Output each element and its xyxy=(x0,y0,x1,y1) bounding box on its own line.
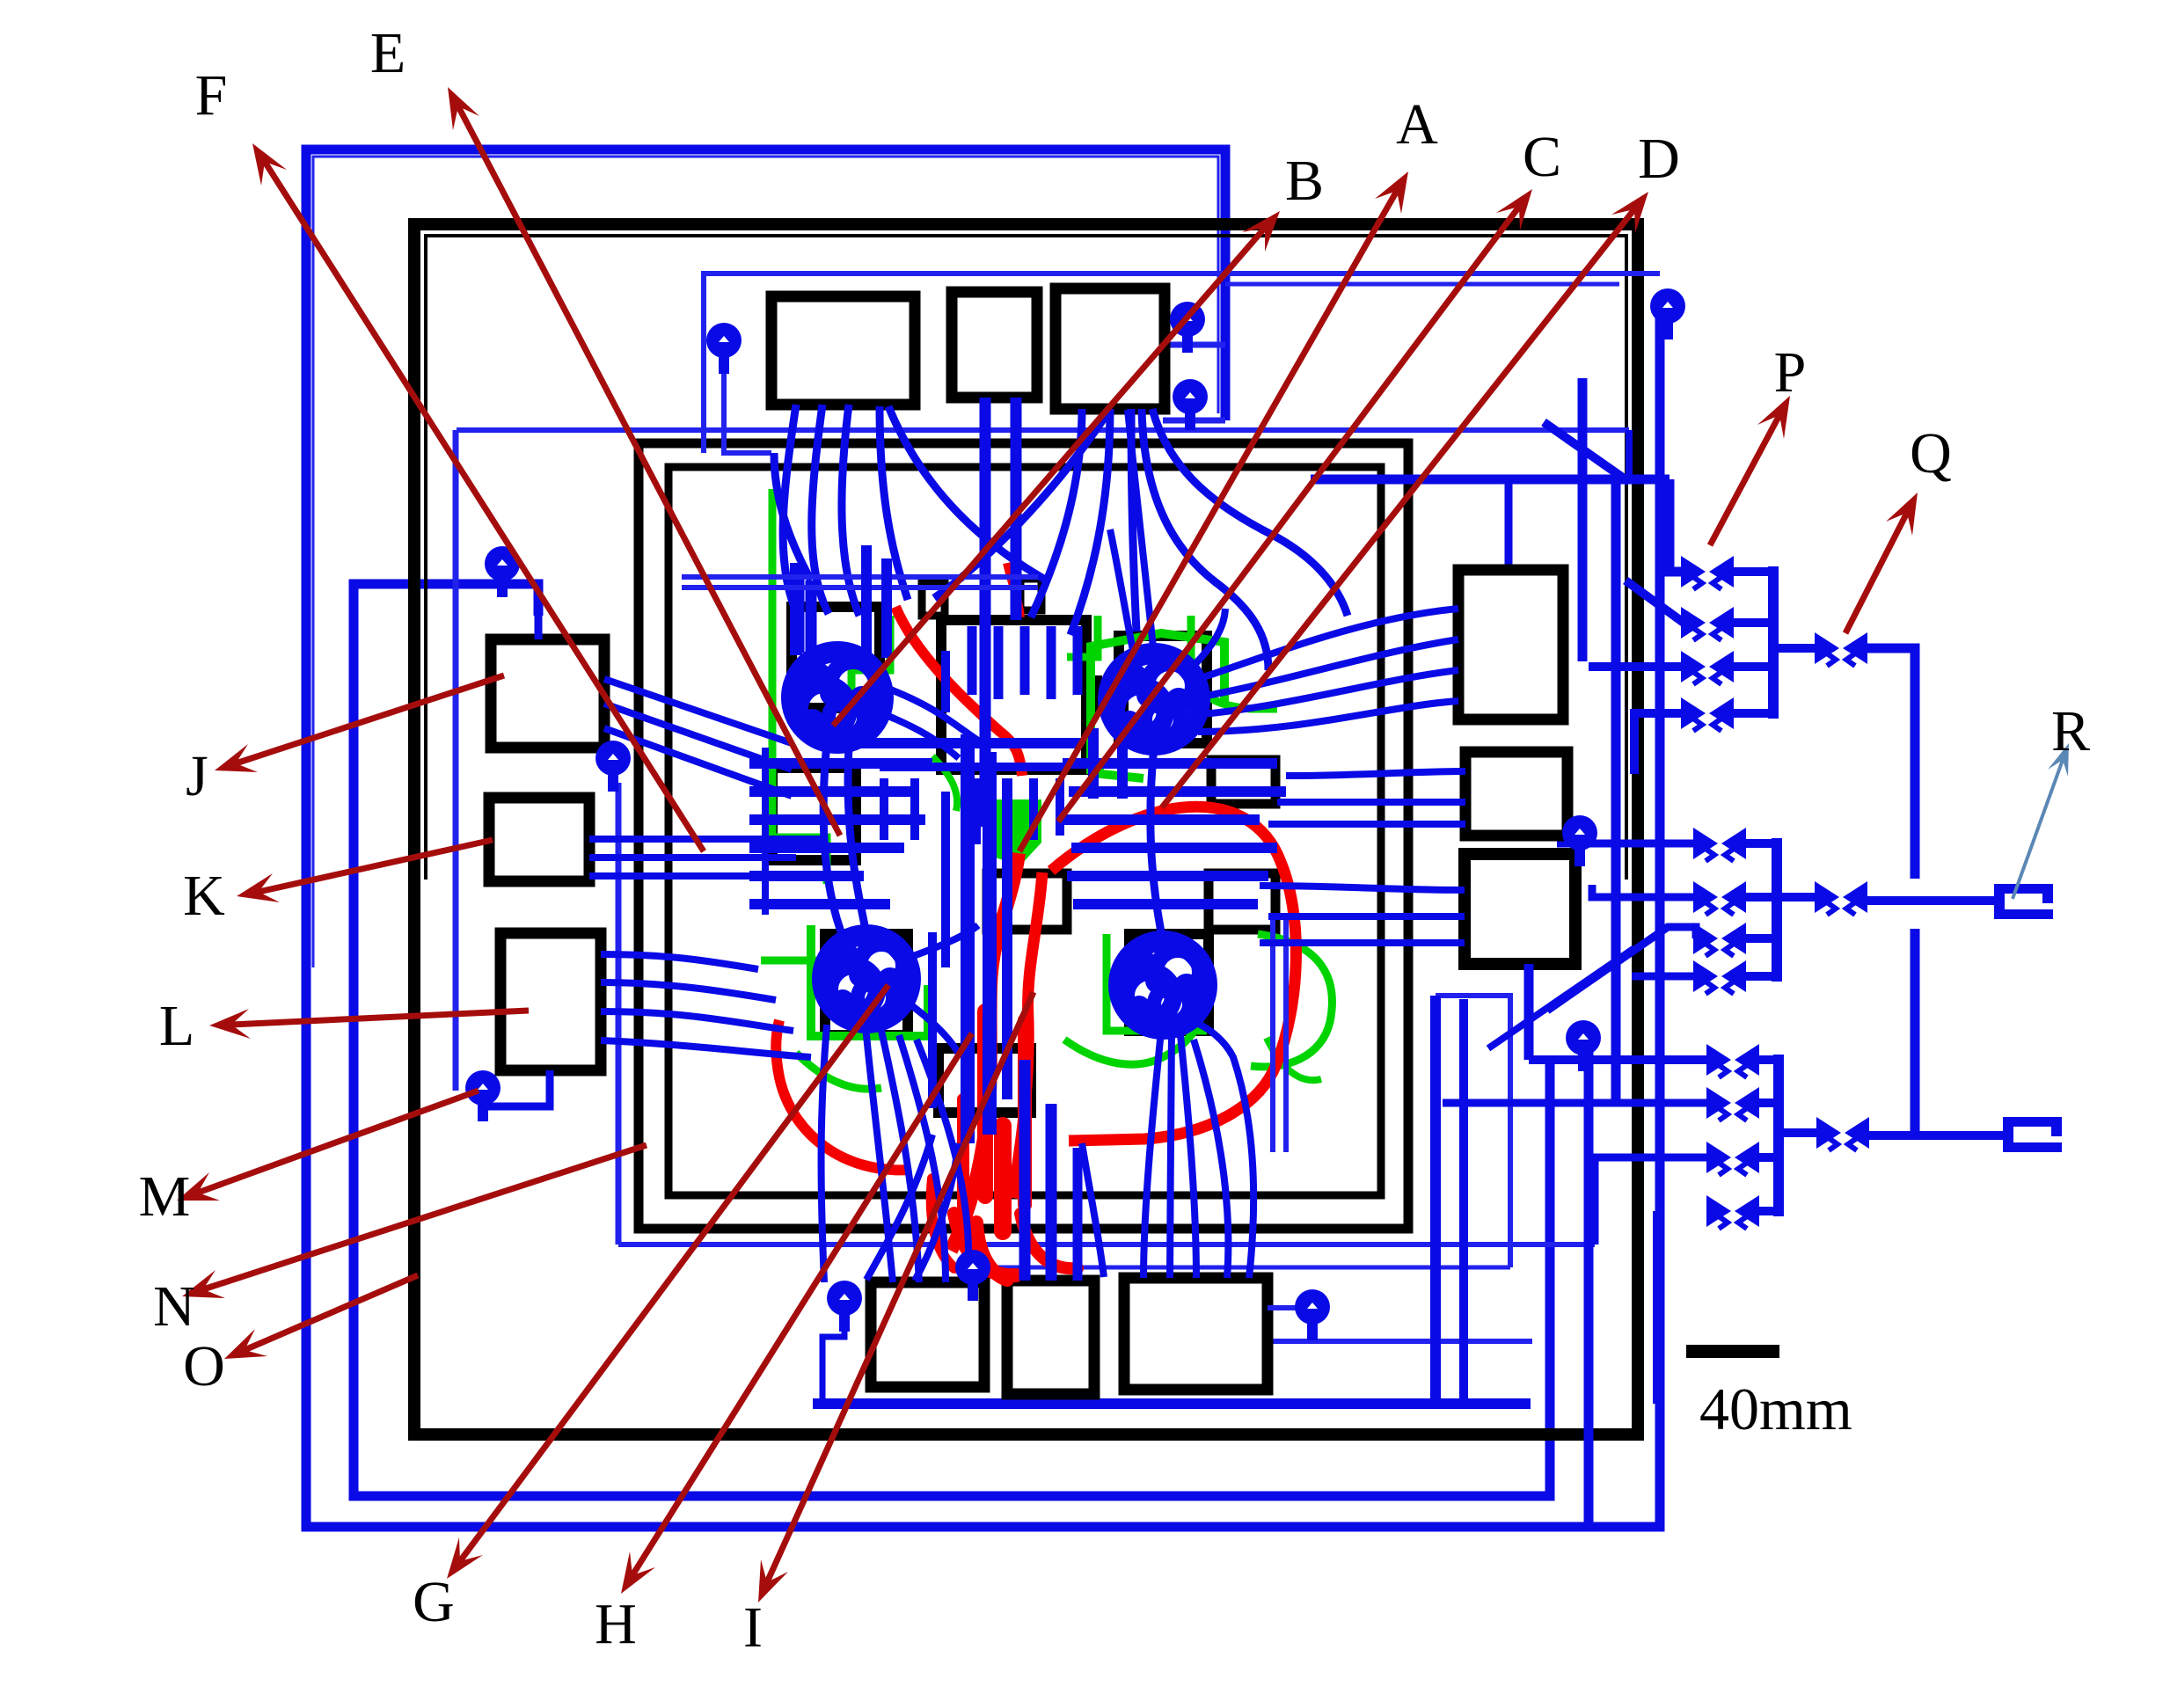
svg-text:Q: Q xyxy=(1910,421,1952,485)
green seg left xyxy=(761,957,849,965)
wire T2 a xyxy=(980,398,991,827)
green hook center xyxy=(932,756,957,811)
center pad UL xyxy=(792,607,880,708)
valve V13 xyxy=(1681,651,1734,684)
svg-text:B: B xyxy=(1285,149,1324,213)
svg-text:K: K xyxy=(183,864,225,928)
stub g3 xyxy=(1757,1207,1779,1215)
wire T1 down xyxy=(812,405,829,614)
wire B3 fan xyxy=(1194,1022,1253,1278)
wire K2 xyxy=(589,854,796,861)
knot stub xyxy=(880,712,959,758)
port T3a loop xyxy=(1163,342,1225,348)
wire B3 fan xyxy=(915,1143,959,1281)
thick blue bus y1596 xyxy=(813,1398,1531,1409)
green ring LR xyxy=(1107,934,1207,1031)
pad L xyxy=(500,933,601,1070)
wire T3 down xyxy=(1152,409,1348,616)
green hook b xyxy=(1067,616,1098,657)
Q output down second segment xyxy=(1911,929,1920,1133)
wire B3 fan xyxy=(866,1135,932,1280)
CT comb 5 xyxy=(1073,626,1083,695)
center column b xyxy=(983,752,997,1135)
wire L xyxy=(601,1040,811,1057)
valve V31 xyxy=(1706,1044,1759,1077)
wire J2 xyxy=(604,704,792,770)
valve single bottom xyxy=(1816,1117,1869,1150)
center pad CC xyxy=(987,873,1067,930)
pad K xyxy=(489,798,589,881)
green hook a xyxy=(851,616,890,704)
wire B1 fan xyxy=(866,1026,893,1282)
pad L stem loop xyxy=(483,1070,550,1106)
comb 2 xyxy=(910,778,919,840)
wire T3 down xyxy=(1131,409,1136,631)
arrow K xyxy=(237,840,493,902)
riser x1806 xyxy=(1584,1052,1594,1527)
wire T3 down xyxy=(774,453,811,580)
center pad CL2 xyxy=(772,768,856,860)
wire UR to R1 xyxy=(1202,670,1458,714)
arrow M xyxy=(177,1091,479,1201)
valve V11 xyxy=(1681,556,1734,589)
stub g2 xyxy=(1743,934,1777,943)
svg-text:G: G xyxy=(413,1570,455,1634)
valve V14 xyxy=(1681,697,1734,731)
wire UR to R1 xyxy=(1202,639,1458,697)
black frame 2 xyxy=(639,443,1408,1229)
wire R3 c xyxy=(1260,939,1465,946)
svg-text:L: L xyxy=(159,994,194,1058)
g2 row4 input xyxy=(1632,973,1696,981)
g2 row3 input diagonal xyxy=(1547,927,1696,1011)
svg-text:F: F xyxy=(195,63,228,128)
wire B1 fan xyxy=(917,1040,968,1282)
CT comb 2 xyxy=(994,626,1004,699)
green arc left low xyxy=(796,1053,881,1089)
wire UR up xyxy=(1110,529,1135,660)
knot UL xyxy=(792,652,883,743)
second blue channel frame xyxy=(354,584,1550,1496)
red column d xyxy=(994,1126,1012,1231)
g3 row2 input xyxy=(1443,1099,1708,1107)
arrow N xyxy=(182,1145,647,1298)
stub g1 xyxy=(1731,567,1773,576)
short channel right of R1 xyxy=(1578,378,1588,661)
valve Q xyxy=(1815,632,1867,666)
port a xyxy=(706,323,742,374)
valve V21 xyxy=(1693,828,1746,861)
port b xyxy=(1170,302,1205,353)
valve single mid xyxy=(1815,881,1867,915)
stub g3 xyxy=(1757,1055,1779,1064)
green arc bottom right xyxy=(1064,987,1203,1064)
wire B2 a xyxy=(1019,1060,1031,1281)
svg-text:R: R xyxy=(2051,699,2090,763)
wire R3 a xyxy=(1260,886,1465,890)
thin blue bus y489 xyxy=(457,427,1629,433)
ladder R xyxy=(1073,899,1258,909)
g3 row3 input xyxy=(1595,1157,1708,1245)
wire B2 c xyxy=(1073,1148,1083,1281)
pad J xyxy=(491,639,604,748)
arrow G xyxy=(447,985,888,1579)
port J xyxy=(485,546,520,597)
pad B3 xyxy=(1124,1278,1268,1390)
pad B1 xyxy=(871,1282,984,1387)
comb 4 xyxy=(972,778,981,844)
wire T1 down xyxy=(783,405,798,616)
center cross bar b xyxy=(880,763,1064,771)
center tick 2 xyxy=(1117,675,1129,712)
UR to LR xyxy=(1151,746,1163,941)
thin riser right xyxy=(1436,996,1510,1267)
port B1 xyxy=(827,1281,862,1332)
black frame 3 xyxy=(669,467,1381,1195)
red fountain c xyxy=(976,1223,1007,1280)
svg-text:J: J xyxy=(186,744,208,808)
wire J1 xyxy=(604,679,792,743)
pad R1 top stem xyxy=(1505,479,1513,570)
small pad top b xyxy=(1020,579,1041,610)
wire B3 fan xyxy=(1180,1035,1196,1278)
riser x1885 to valve g3 row4 xyxy=(1653,1211,1663,1404)
red column a xyxy=(977,1011,993,1196)
wire L xyxy=(601,954,758,969)
arrow L xyxy=(209,1009,529,1039)
wire T1 down xyxy=(880,406,908,600)
red channel main2 xyxy=(1012,872,1042,1198)
port T1 loop lower xyxy=(724,361,771,453)
UL to LL a xyxy=(823,743,844,941)
svg-text:A: A xyxy=(1396,92,1438,157)
svg-text:40mm: 40mm xyxy=(1699,1376,1852,1442)
stub g2 xyxy=(1743,972,1777,981)
svg-text:P: P xyxy=(1774,340,1807,405)
pad R1 xyxy=(1458,570,1563,719)
stub g1 xyxy=(1731,662,1773,671)
center tick 1 xyxy=(1091,675,1102,712)
ladder R xyxy=(1071,843,1277,853)
wire B3 fan xyxy=(1143,1031,1161,1278)
outlet line mid xyxy=(1865,896,1994,905)
ladder L xyxy=(749,758,932,769)
valve V22 xyxy=(1693,881,1746,915)
wire T2 b xyxy=(1011,398,1022,620)
port right R2 xyxy=(1562,815,1597,866)
pad R2 xyxy=(1465,752,1567,836)
ladder L xyxy=(749,871,864,881)
pad T2 xyxy=(952,292,1037,398)
valve V33 xyxy=(1706,1142,1759,1175)
green ring UR a xyxy=(1091,633,1224,774)
second diagonal input xyxy=(1488,948,1634,1048)
arrow Q xyxy=(1845,493,1918,633)
port B3 link xyxy=(1268,1305,1312,1310)
arrow D xyxy=(1162,192,1648,807)
thin blue bus y1441 xyxy=(973,1266,1510,1270)
bundle above UL b xyxy=(881,558,892,658)
wire L xyxy=(601,1011,793,1031)
stub bar b xyxy=(806,580,817,653)
pad R3 stem down xyxy=(1524,964,1534,1060)
black frame 1 inner wall xyxy=(426,236,1626,880)
svg-text:H: H xyxy=(595,1592,637,1656)
supply channel y545 xyxy=(1311,475,1670,485)
svg-text:E: E xyxy=(370,21,406,85)
port right low xyxy=(1566,1020,1601,1071)
arrow F xyxy=(252,143,704,851)
thin blue bus y1415 xyxy=(618,1242,1595,1247)
small pad top a xyxy=(922,582,945,616)
outlet connector mid xyxy=(1994,884,2053,919)
pad T3 xyxy=(1056,288,1165,409)
stub g3 xyxy=(1757,1099,1779,1107)
wire J3 xyxy=(604,728,792,796)
center column a xyxy=(961,734,975,1143)
comb 1 xyxy=(880,778,888,840)
wire B3 fan xyxy=(1082,1143,1104,1277)
g1 row3 input xyxy=(1589,662,1684,671)
CT comb 1 xyxy=(968,626,977,695)
arrow C xyxy=(1058,189,1532,821)
red column c xyxy=(957,1099,969,1214)
CT comb 3 xyxy=(1020,626,1030,695)
g3 output xyxy=(1779,1128,1817,1137)
center column e xyxy=(928,932,937,1108)
arrow H xyxy=(621,1033,972,1594)
center pad UR xyxy=(1119,636,1207,743)
svg-text:N: N xyxy=(153,1274,195,1339)
red fountain a xyxy=(954,1214,1016,1275)
Q output down xyxy=(1865,648,1915,879)
thin blue line y323 xyxy=(1225,282,1619,287)
valve V32 xyxy=(1706,1087,1759,1120)
ladder L xyxy=(749,786,910,797)
thin blue channel top xyxy=(704,274,1660,453)
green ring LL xyxy=(811,925,928,1036)
outlet line bottom xyxy=(1867,1131,2003,1140)
CT comb 4 xyxy=(1047,626,1056,699)
pad B2 xyxy=(1007,1281,1094,1394)
left channel x518 xyxy=(453,430,459,1091)
ladder L xyxy=(749,899,890,909)
pad J top stub xyxy=(535,616,543,639)
valve V34 xyxy=(1706,1195,1759,1229)
outer frame inner wall xyxy=(313,157,1218,967)
comb 6 xyxy=(1056,778,1064,836)
knot LL xyxy=(822,935,910,1023)
valve group3 bus xyxy=(1773,1055,1784,1216)
g2 output xyxy=(1777,893,1817,901)
riser to valve row1 xyxy=(1670,479,1684,572)
knot stub xyxy=(881,686,978,741)
center pad CR2 xyxy=(1209,873,1275,930)
red column b xyxy=(1018,1020,1032,1205)
svg-text:C: C xyxy=(1523,125,1561,189)
svg-text:D: D xyxy=(1638,127,1680,191)
blue bar below ticks a xyxy=(1088,728,1099,799)
ladder L bar2 xyxy=(762,748,769,915)
arrow B xyxy=(833,211,1280,726)
scale bar xyxy=(1686,1345,1779,1358)
UL to LL b xyxy=(848,746,866,934)
wire B1 fan xyxy=(822,1025,827,1282)
valve group2 bus xyxy=(1772,838,1782,982)
g3 row1 input from R3 stem xyxy=(1529,1055,1708,1064)
pad T1 xyxy=(771,296,915,405)
knot stub xyxy=(906,925,978,959)
right gap vertical x1837 xyxy=(1611,482,1621,1103)
knot stub xyxy=(908,1003,961,1057)
g2 row2 input xyxy=(1592,885,1696,897)
wire B1 fan xyxy=(899,1035,946,1282)
stub g1 xyxy=(1731,618,1773,627)
wire T3 down xyxy=(1070,409,1110,635)
port B2 xyxy=(955,1250,990,1301)
center pad CR1 xyxy=(1211,760,1275,804)
port c xyxy=(1173,379,1208,430)
port on outer channel cap xyxy=(1650,288,1685,339)
riser x1632 xyxy=(1430,996,1441,1404)
wire B1 fan xyxy=(881,1031,919,1282)
thin mid line a xyxy=(682,574,1038,580)
ladder R xyxy=(1067,871,1268,881)
wire R2 c xyxy=(1268,821,1465,828)
red fountain b xyxy=(1020,1214,1078,1268)
comb 5 xyxy=(1029,778,1038,840)
wire T3 down xyxy=(888,406,1047,580)
green ring UR b xyxy=(1091,752,1143,778)
green tail right xyxy=(1267,1038,1321,1080)
green blob center xyxy=(990,799,1041,865)
comb 3 xyxy=(941,651,950,712)
wire L xyxy=(601,982,776,1000)
thin vert pair b xyxy=(1283,915,1289,1152)
wire UR to R1 xyxy=(1198,701,1458,732)
center pad CT xyxy=(941,620,1086,770)
wire K1 xyxy=(589,836,827,843)
g1 row4 input xyxy=(1634,713,1684,774)
thin mid line b xyxy=(682,585,1038,590)
ladder R xyxy=(1063,758,1277,769)
left channel x703 xyxy=(616,783,622,1245)
arrow O xyxy=(224,1275,418,1359)
wire UR to R1 xyxy=(1198,609,1458,679)
ladder R xyxy=(1069,786,1286,797)
red U right xyxy=(1051,807,1296,1141)
valve group1 bus xyxy=(1768,566,1779,719)
arrow R xyxy=(2013,743,2069,899)
wire R2 a xyxy=(1286,771,1465,776)
valve V24 xyxy=(1693,960,1746,994)
elbow y489 to y545 xyxy=(1626,430,1633,479)
port B1 loop xyxy=(822,1316,844,1400)
arrow I xyxy=(758,992,1034,1602)
svg-text:I: I xyxy=(743,1595,763,1660)
wire UR to port loop xyxy=(1189,609,1225,670)
riser x1664 xyxy=(1459,999,1468,1404)
port B3 xyxy=(1295,1289,1330,1340)
wire B3 fan xyxy=(1170,1031,1172,1278)
bundle above UL a xyxy=(861,545,872,664)
center column d xyxy=(941,792,950,967)
arrow P xyxy=(1710,396,1790,545)
center pad LL xyxy=(825,934,908,1035)
stub bar a xyxy=(793,563,805,653)
center pad CB xyxy=(939,1048,1031,1113)
pad R3 xyxy=(1465,854,1575,964)
green hook right xyxy=(1191,616,1277,709)
green channel left L xyxy=(772,489,827,884)
ladder L bar1 xyxy=(790,563,802,655)
arrow A xyxy=(1019,172,1408,851)
red arc left xyxy=(776,1020,910,1170)
knot UR xyxy=(1108,653,1200,745)
g1 row2 input diagonal xyxy=(1626,580,1684,623)
port T3b loop xyxy=(1163,418,1225,424)
wire T3 down xyxy=(934,409,1110,598)
outlet connector bottom xyxy=(2003,1117,2062,1152)
arrow E xyxy=(448,87,840,836)
blue bar below ticks b xyxy=(1117,728,1128,799)
wire K3 xyxy=(589,872,843,880)
svg-text:O: O xyxy=(183,1334,225,1398)
green C loop right xyxy=(1251,934,1332,1067)
ladder L xyxy=(749,814,925,825)
svg-text:M: M xyxy=(139,1164,191,1229)
valve V12 xyxy=(1681,607,1734,640)
wire R2 b xyxy=(1277,799,1465,806)
stub g3 xyxy=(1757,1153,1779,1162)
port K xyxy=(595,741,631,792)
red fountain d xyxy=(932,1179,954,1268)
arrow J xyxy=(215,675,504,772)
outer blue channel frame xyxy=(306,150,1660,1527)
red channel main xyxy=(951,853,1019,1251)
stub g2 xyxy=(1743,839,1777,848)
valve V23 xyxy=(1693,923,1746,956)
stub g2 xyxy=(1743,893,1777,901)
wire B3 fan xyxy=(1194,1040,1228,1278)
wire R3 b xyxy=(1268,913,1465,920)
g1 output to Q xyxy=(1773,644,1817,653)
port M xyxy=(465,1070,500,1121)
wire UR up xyxy=(1128,410,1154,655)
wire B2 b xyxy=(1046,1104,1057,1281)
g2 row1 input xyxy=(1557,840,1696,848)
black frame 1 xyxy=(414,224,1638,1434)
wire T1 down xyxy=(842,405,859,616)
center column c xyxy=(1002,778,1012,1099)
stub g1 xyxy=(1731,709,1773,718)
red channel upper xyxy=(895,607,1022,776)
wire T3 down xyxy=(1031,409,1082,617)
center cross bar a xyxy=(858,738,1082,748)
ladder R xyxy=(1063,814,1260,825)
red stub top xyxy=(1007,563,1020,617)
wire T3 down xyxy=(1142,409,1268,670)
diagonal supply xyxy=(1544,422,1629,482)
center pad LR xyxy=(1129,934,1209,1031)
thin vert pair a xyxy=(1270,915,1275,1152)
knot LR xyxy=(1119,941,1207,1029)
thin blue bus y1525 xyxy=(1258,1339,1532,1344)
ladder L xyxy=(749,843,904,853)
